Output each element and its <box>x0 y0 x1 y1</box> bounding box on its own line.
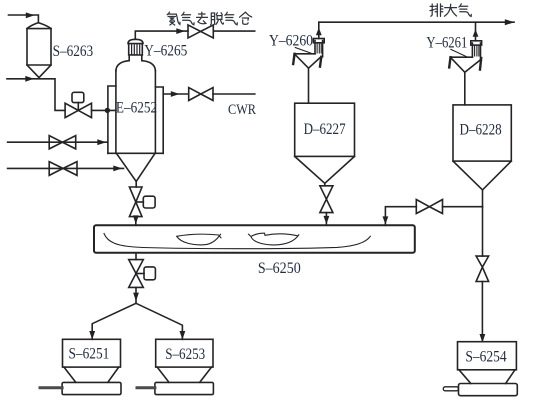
wire feed 2 <box>8 167 124 169</box>
vessel D-6228 <box>453 105 511 190</box>
wire CWR from jacket <box>163 93 189 95</box>
vessel S-6263 <box>27 23 51 78</box>
shaft stub S-6254 <box>443 387 458 391</box>
svg-text:S–6263: S–6263 <box>53 43 94 60</box>
vessel E-6252 shell <box>108 55 163 153</box>
valve D-6227 bottom <box>320 186 333 213</box>
wire D-6227 cone to valve <box>324 183 326 186</box>
气 <box>182 12 194 25</box>
cone E-6252 <box>116 153 155 181</box>
valve nitrogen <box>188 25 213 38</box>
breather Y-6265 <box>128 39 143 55</box>
wire Y-6261 to D-6228 <box>464 72 466 105</box>
valve E-6252 bottom with actuator <box>129 187 155 217</box>
node junction on jacket <box>105 108 110 113</box>
脱 <box>211 13 224 25</box>
去 <box>197 12 208 24</box>
wire down from valve to split <box>135 287 137 303</box>
wire E-6252 cone to bottom valve <box>135 181 137 187</box>
wire top feed into S-6263 <box>9 15 39 23</box>
wire S-6263 outlet to valve <box>7 79 65 111</box>
trough S-6250 <box>94 225 415 253</box>
wire split left to S-6251 <box>92 303 136 339</box>
svg-text:D–6228: D–6228 <box>460 122 502 139</box>
wire D-6228 junction down to valve <box>482 207 484 256</box>
氮 <box>167 12 180 25</box>
svg-text:S–6253: S–6253 <box>165 346 205 363</box>
trough inner screw curve <box>104 234 370 249</box>
wire recycle to trough <box>385 207 416 226</box>
wire nitrogen from Y-6265 to valve <box>135 31 188 39</box>
wire nitrogen line end <box>213 30 254 32</box>
valve CWR <box>189 88 213 101</box>
svg-text:D–6227: D–6227 <box>304 121 346 138</box>
svg-text:S–6251: S–6251 <box>69 346 110 363</box>
仓 <box>240 12 252 24</box>
wire into trough middle <box>325 213 327 226</box>
svg-text:Y–6261: Y–6261 <box>426 34 467 51</box>
vessel D-6227 <box>295 103 355 183</box>
valve D-6228 bottom <box>476 256 489 281</box>
svg-text:E–6252: E–6252 <box>116 99 157 116</box>
valve feed 1 <box>49 136 75 149</box>
wire CWR line end <box>213 93 255 95</box>
shaft stub S-6251 <box>40 386 62 389</box>
wire D-6228 cone down to junction <box>482 190 484 207</box>
wire valve to E-6252 <box>92 109 116 111</box>
wire Y-6260 to D-6227 <box>308 68 310 103</box>
wire Y-6261 vent up <box>475 22 477 41</box>
气 <box>225 12 237 25</box>
jacket E-6252 <box>108 86 163 153</box>
wire Y-6260 vent up <box>318 22 320 38</box>
wire into trough left <box>135 217 137 226</box>
shaft stub S-6253 <box>137 386 155 389</box>
trough paddle 1 <box>177 234 221 245</box>
valve HV1 with actuator <box>65 92 91 117</box>
valve recycle horizontal <box>416 200 442 214</box>
trough paddle 2 <box>249 233 299 245</box>
wire junction to recycle valve <box>443 206 483 208</box>
valve feed 2 <box>49 162 77 176</box>
svg-text:Y–6265: Y–6265 <box>144 43 187 60</box>
text 氮气去脱气仓 <box>167 12 252 25</box>
hopper S-6253 <box>155 339 214 394</box>
wire valve to S-6254 <box>481 282 483 342</box>
svg-text:CWR: CWR <box>228 102 256 118</box>
valve S-6250 bottom with actuator <box>129 260 156 288</box>
wire vent header 排大气 <box>319 21 514 23</box>
wire feed 1 <box>8 141 108 143</box>
排 <box>430 4 443 17</box>
svg-text:Y–6260: Y–6260 <box>269 33 313 50</box>
filter Y-6260 <box>293 39 324 69</box>
hopper S-6254 <box>458 342 518 396</box>
气 <box>459 4 471 17</box>
wire trough outlet <box>135 253 137 260</box>
svg-text:S–6254: S–6254 <box>465 349 506 366</box>
filter Y-6261 <box>449 41 481 73</box>
svg-text:S–6250: S–6250 <box>258 260 301 277</box>
text 排大气 <box>430 4 471 17</box>
wire split right to S-6253 <box>136 303 182 339</box>
大 <box>445 4 457 16</box>
hopper S-6251 <box>62 339 121 394</box>
